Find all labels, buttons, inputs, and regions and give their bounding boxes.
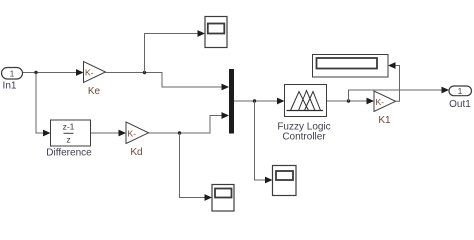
wire branch up and right to Out1 — [349, 87, 450, 101]
svg-text:In1: In1 — [3, 81, 17, 92]
svg-text:z-1: z-1 — [63, 122, 75, 132]
svg-text:K1: K1 — [378, 115, 391, 126]
svg-text:z: z — [66, 135, 70, 145]
junction on Ke output — [143, 71, 146, 74]
output port Out1 — [449, 86, 472, 110]
svg-text:Kd: Kd — [130, 147, 142, 158]
gain Kd — [126, 122, 149, 158]
difference block — [46, 120, 92, 159]
wire Kd output to mux input 2 — [149, 112, 230, 133]
wire Difference to Kd — [91, 130, 127, 137]
scope Scope1 — [205, 17, 227, 48]
wire K1 output up to Display — [388, 62, 400, 101]
svg-text:Difference: Difference — [46, 148, 92, 159]
gain K1 — [374, 91, 396, 126]
wire In1 to Ke — [23, 69, 84, 76]
svg-text:Controller: Controller — [282, 132, 326, 143]
junction on mux output — [253, 99, 256, 102]
svg-text:1: 1 — [10, 69, 15, 79]
wire In1 branch down to Difference — [36, 73, 51, 137]
svg-text:K-: K- — [376, 97, 385, 107]
wire mux output to Fuzzy Logic Controller — [234, 98, 285, 105]
wire Ke output to mux input 1 — [106, 73, 230, 91]
wire branch up to Scope1 — [145, 30, 206, 72]
wire branch down to Scope2 — [180, 133, 213, 201]
svg-text:Out1: Out1 — [449, 99, 471, 110]
junction on Kd output — [178, 131, 181, 134]
mux — [229, 69, 234, 134]
svg-text:1: 1 — [458, 86, 463, 96]
wire Fuzzy Logic Controller output to K1 — [327, 98, 375, 105]
scope Scope2 — [212, 185, 234, 212]
svg-text:Fuzzy Logic: Fuzzy Logic — [277, 121, 330, 132]
gain Ke — [84, 62, 106, 98]
scope Scope3 — [273, 166, 297, 196]
svg-text:Ke: Ke — [88, 86, 101, 97]
wire branch down to Scope3 — [255, 101, 273, 183]
svg-text:K-: K- — [85, 68, 94, 78]
fuzzy logic controller U1 — [277, 85, 330, 143]
svg-text:K-: K- — [128, 128, 137, 138]
junction on In1 wire — [34, 71, 37, 74]
display block — [313, 55, 389, 78]
junction on FLC output — [347, 99, 350, 102]
input port In1 — [2, 68, 23, 92]
